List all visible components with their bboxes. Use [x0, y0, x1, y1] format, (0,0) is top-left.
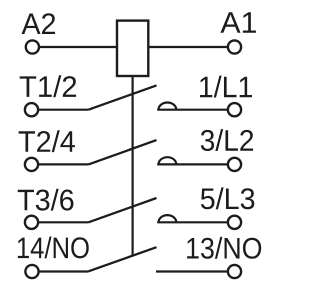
- terminal 5/L3 circle: [228, 216, 241, 229]
- terminal T3/6 circle: [25, 216, 38, 229]
- label A1: [220, 12, 255, 33]
- mechanical linkage vertical wire: [132, 76, 134, 255]
- label 3/L2: [201, 129, 253, 151]
- label 14/NO: [18, 237, 89, 259]
- label 1/L1: [200, 76, 252, 98]
- terminal 13/NO circle: [228, 265, 241, 278]
- wire 14/NO: [39, 270, 88, 272]
- fixed contact bump row 3: [159, 215, 177, 222]
- terminal A1 circle: [228, 40, 241, 53]
- label T3/6: [18, 189, 74, 211]
- wire T3/6: [39, 221, 89, 223]
- wire A2 to coil: [40, 46, 117, 48]
- moving contact blade row 3: [89, 198, 157, 222]
- wire coil to A1: [148, 46, 227, 48]
- fixed contact bump row 1: [159, 102, 177, 109]
- label T1/2: [20, 75, 76, 97]
- wire 13/NO: [156, 270, 227, 272]
- label 13/NO: [187, 237, 261, 259]
- coil K1 rectangle: [117, 21, 148, 76]
- wire T2/4: [39, 163, 89, 165]
- fixed contact bump row 2: [159, 157, 177, 164]
- terminal 1/L1 circle: [228, 103, 241, 116]
- wire T1/2: [39, 109, 89, 111]
- terminal T1/2 circle: [25, 103, 38, 116]
- label 5/L3: [201, 187, 254, 209]
- terminal A2 circle: [26, 40, 39, 53]
- wire 1/L1: [157, 109, 227, 111]
- wire 3/L2: [157, 163, 227, 165]
- moving contact blade row 4: [89, 247, 157, 271]
- moving contact blade row 1: [89, 85, 157, 109]
- terminal T2/4 circle: [25, 158, 38, 171]
- moving contact blade row 2: [89, 140, 157, 164]
- terminal 14/NO circle: [25, 265, 38, 278]
- label T2/4: [19, 130, 75, 152]
- terminal 3/L2 circle: [228, 158, 241, 171]
- wire 5/L3: [157, 221, 227, 223]
- label A2: [22, 13, 56, 34]
